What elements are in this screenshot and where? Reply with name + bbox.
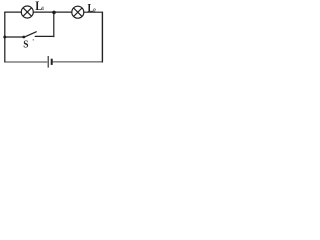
- battery cell: short plate (-): [51, 59, 53, 65]
- lamp L1: [21, 6, 33, 18]
- wire switch left segment: [5, 36, 23, 38]
- svg-text:S: S: [23, 39, 29, 51]
- switch S blade: [24, 32, 36, 38]
- wire left vertical: [4, 12, 6, 62]
- wire branch vertical: [53, 13, 55, 37]
- svg-text:L1: L1: [35, 0, 44, 13]
- wire switch right segment: [35, 35, 54, 37]
- battery cell: long plate (+): [47, 56, 49, 68]
- wire top left segment: [5, 11, 22, 13]
- node: small contact mark right of switch: [33, 39, 34, 40]
- wire bottom right segment: [53, 61, 103, 63]
- node junction left (tee on left wire): [3, 36, 6, 39]
- wire top right segment: [84, 11, 103, 13]
- svg-text:L2: L2: [88, 2, 97, 15]
- switch S pivot contact: [22, 36, 25, 39]
- node junction top (between L1 and L2): [52, 11, 56, 15]
- lamp L2: [72, 6, 84, 18]
- wire right vertical: [101, 12, 103, 62]
- wire top middle segment: [33, 11, 72, 13]
- wire bottom left segment: [5, 61, 47, 63]
